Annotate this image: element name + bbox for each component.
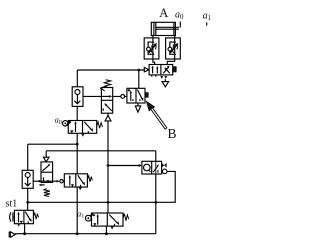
roller limit valve a1 bbox=[85, 213, 128, 230]
left cell arrow bbox=[18, 213, 20, 222]
wire: pilot line y=70 from check valve riser to 5/2 pilot bbox=[77, 69, 144, 71]
tick below a1 label bbox=[206, 22, 208, 25]
check valve V3 (top, under y70 line) bbox=[72, 87, 83, 107]
arrowhead pointing left toward V5 bbox=[37, 180, 40, 183]
wire: riser left check valve top bbox=[27, 144, 29, 170]
compressed air source symbol bbox=[9, 232, 15, 238]
roller limit valve a0 bbox=[62, 121, 102, 137]
spring right of a1 valve bbox=[123, 214, 129, 221]
spring right of a0 valve bbox=[97, 122, 103, 128]
wire: left flow control to 5/2 valve bbox=[153, 59, 155, 65]
pneumatic return block right bbox=[173, 66, 177, 72]
svg-text:st1: st1 bbox=[6, 199, 18, 210]
svg-text:a0: a0 bbox=[175, 9, 184, 21]
svg-text:A: A bbox=[159, 6, 168, 20]
wire: st1 valve bottom to bus bbox=[24, 224, 26, 234]
node: junction dot timer column at bus bbox=[154, 201, 157, 204]
exhaust below V6 bbox=[79, 187, 82, 190]
diagonal in top cell bbox=[42, 165, 49, 171]
spring right of st1 bbox=[33, 213, 38, 220]
wire: supply bus bottom y=233.7 bbox=[15, 233, 156, 235]
timer/counter component bbox=[142, 161, 167, 174]
wire: vertical drop from y70 junction to valve B top bbox=[138, 70, 140, 88]
wire: signal bus y=202.3 bbox=[28, 201, 156, 203]
arrowhead into timer bbox=[139, 164, 142, 167]
exhaust below valve B bbox=[137, 103, 139, 106]
pneumatic bowtie at right bbox=[162, 163, 165, 168]
node: junction dot bus start bbox=[26, 201, 29, 204]
node: junction dot timer feed bbox=[107, 164, 110, 167]
3/2 pilot valve V6 (mid horizontal) bbox=[64, 174, 92, 191]
svg-text:a0: a0 bbox=[55, 115, 62, 126]
wire: check valve V3 bottom to a0 valve top bbox=[76, 106, 78, 120]
output port circle bbox=[162, 169, 167, 174]
wire: stub to V4 pilot triangle bbox=[45, 151, 47, 157]
flow control valve right (one-way throttle) bbox=[166, 38, 181, 59]
exhaust below a0 valve bbox=[81, 134, 84, 137]
pneumatic block right of valve B bbox=[145, 92, 149, 97]
check valve V5 (mid-left) bbox=[22, 170, 33, 188]
spring on top bbox=[104, 80, 110, 88]
wire: pilot line y=150.8 across bbox=[46, 150, 156, 152]
wire: timer bottom down to supply bus bbox=[155, 174, 157, 234]
wire: timer feed line y=165.5 bbox=[108, 165, 139, 167]
wire: left check valve bottom to st1 valve top bbox=[27, 188, 29, 210]
cylinder A bbox=[151, 22, 180, 38]
wire: a1 valve bottom to bus bbox=[105, 226, 107, 234]
exhaust below st1 bbox=[17, 224, 20, 227]
3/2 pilot valve V4 (vertical, pilot top, spring bottom) bbox=[39, 157, 53, 196]
pilot triangle below bbox=[107, 113, 109, 115]
wire: timer top riser from y150.8 bbox=[155, 151, 157, 162]
svg-text:a1: a1 bbox=[203, 11, 212, 23]
node: dot x77 supply bbox=[76, 232, 79, 235]
flow arrow in top cell bbox=[101, 95, 109, 97]
wire: valve V6 bottom down to supply bus bbox=[76, 187, 78, 234]
wire: pilot valve V2 out to port circle and valve B bbox=[113, 95, 127, 97]
node: junction dot x77 y144 bbox=[76, 143, 79, 146]
diagonal in bottom cell bbox=[106, 105, 112, 111]
cursor arrow annotation B bbox=[147, 102, 167, 130]
node: dot st1 supply bbox=[23, 232, 26, 235]
wire: riser check valve top to y70 line bbox=[76, 70, 78, 87]
wire: vertical a1 signal line x=108 from V2 pilot down to a1 valve bbox=[107, 121, 109, 213]
flow path in bottom cell with junction dot bbox=[41, 180, 53, 182]
wire: flow line y=181.2 check valve V5 to valve V4 bbox=[33, 180, 41, 182]
svg-text:B: B bbox=[168, 126, 177, 141]
spring below bbox=[44, 189, 50, 197]
node: junction dot bus at x108 bbox=[107, 201, 110, 204]
node: port circle between V2 and valve B bbox=[121, 95, 125, 99]
pushbutton valve st1 bbox=[10, 210, 39, 226]
wire: branch y=144 to left check valve V5 bbox=[28, 143, 77, 145]
wire: a0 valve bottom down through to valve V6 top bbox=[76, 133, 78, 174]
arrowhead into V6 port bbox=[57, 180, 60, 183]
pushbutton actuator bbox=[10, 212, 11, 221]
node: port circle at V6 inlet bbox=[60, 180, 63, 183]
exhaust arrow top-left bbox=[102, 89, 105, 91]
pilot triangle 5/2 left bbox=[144, 67, 149, 72]
node: junction dot on y70 line feeding valve B bbox=[137, 69, 140, 72]
right cell diagonal bbox=[25, 212, 30, 221]
exhaust below a1 valve bbox=[110, 226, 113, 229]
3/2 pilot valve V2 (vertical, spring top) bbox=[100, 80, 113, 121]
exhaust arrows and silencer triangle below 5/2 bbox=[160, 76, 163, 79]
wire: check valve side port to pilot valve V2 bbox=[83, 95, 101, 97]
node: dot a1 supply bbox=[105, 232, 108, 235]
5/2 directional valve V1 bbox=[144, 65, 176, 87]
wire: right flow control to 5/2 valve bbox=[167, 59, 174, 65]
flow control valve left (one-way throttle) bbox=[144, 38, 159, 59]
wire: timer output loop right and down bbox=[156, 171, 175, 202]
exhaust arrow below-left bbox=[41, 184, 45, 186]
pilot triangle top bbox=[43, 157, 49, 162]
svg-text:a1: a1 bbox=[77, 208, 84, 219]
spring right of V6 bbox=[87, 176, 92, 182]
wire: valve V4 to valve V6 with port marks bbox=[53, 180, 65, 182]
valve B (3/2 pilot valve) bbox=[127, 88, 149, 112]
